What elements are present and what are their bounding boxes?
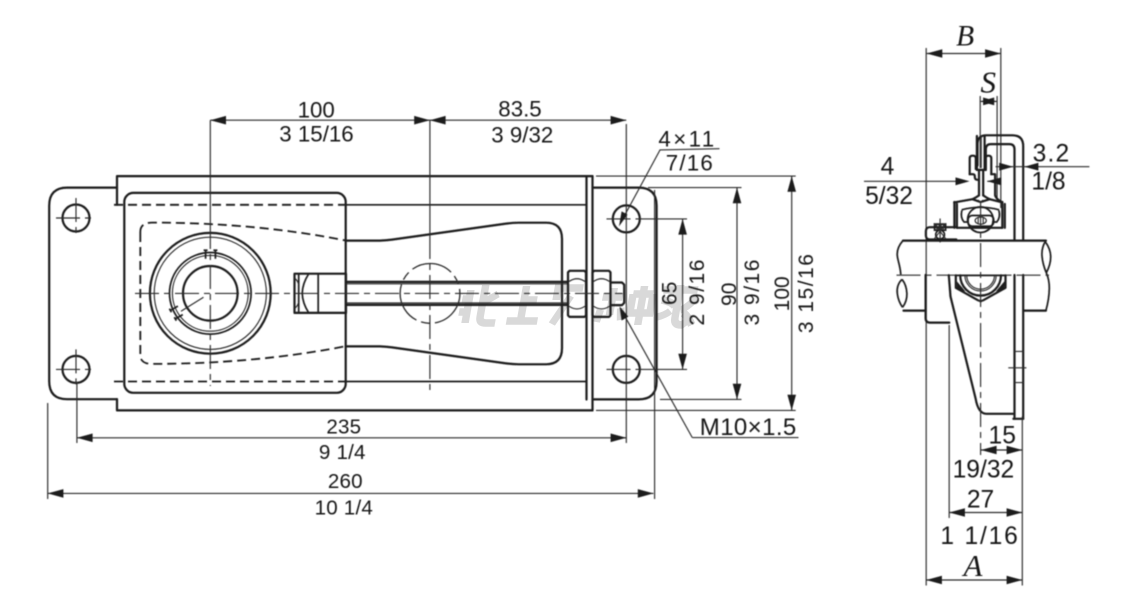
screw head facet lines xyxy=(299,274,319,313)
bore arc outer xyxy=(960,275,1001,295)
shaft bottom edge left xyxy=(904,310,926,312)
frame slot visible contour top xyxy=(346,223,562,365)
frame bottom rail xyxy=(117,399,593,410)
svg-text:B: B xyxy=(956,20,974,52)
dim line 260 xyxy=(48,492,654,494)
ball xyxy=(968,207,994,233)
arrow 3.2 left xyxy=(999,163,1013,171)
adjusting nut left xyxy=(568,271,586,317)
frame bottom rail inner edge hidden xyxy=(114,381,346,383)
arrow 90 top xyxy=(733,188,742,204)
dim line S xyxy=(980,100,997,102)
housing cap right wall xyxy=(1002,202,1005,228)
4x11 leader arrow xyxy=(619,211,628,226)
ext line 27 left xyxy=(948,325,950,518)
svg-text:19/32: 19/32 xyxy=(953,457,1015,484)
arrow 260 right xyxy=(638,489,654,498)
travel-position phantom circle xyxy=(400,264,460,324)
right plate top hole centerline xyxy=(607,218,647,220)
bearing vertical centerline xyxy=(209,120,211,225)
arrow 235 left xyxy=(77,434,93,443)
ext lines S xyxy=(980,96,997,199)
rail right prong xyxy=(986,156,992,175)
svg-text:260: 260 xyxy=(328,470,363,493)
arrow 100R top xyxy=(787,176,796,192)
dim line A xyxy=(926,579,1022,581)
insert bottom line xyxy=(957,227,1002,229)
seal hook right xyxy=(992,210,999,222)
arrow 65 bottom xyxy=(678,354,687,370)
adjusting screw head xyxy=(295,274,347,313)
dim line 27 xyxy=(949,512,1022,514)
svg-text:1 1/16: 1 1/16 xyxy=(940,523,1019,550)
3.2 leader line xyxy=(996,166,1090,168)
bore circle xyxy=(183,266,238,321)
svg-text:235: 235 xyxy=(326,416,361,439)
watermark char 4 xyxy=(596,286,655,325)
ext line 260 left xyxy=(47,403,49,499)
ext line 100R top xyxy=(596,175,796,177)
bearing seat arc xyxy=(962,207,999,210)
ext line 15/27/A right xyxy=(1021,417,1023,586)
housing top right edge xyxy=(981,199,1002,202)
svg-text:3 9/16: 3 9/16 xyxy=(741,258,764,325)
arrow 100R bottom xyxy=(787,395,796,411)
bearing housing boss outer circle xyxy=(150,233,271,354)
inner ring bottom arcs xyxy=(970,226,992,232)
arrow 260 left xyxy=(48,489,64,498)
arrow S left xyxy=(980,98,994,106)
frame wall break ticks xyxy=(1008,351,1026,382)
left mounting plate xyxy=(49,188,117,400)
dim line 15 xyxy=(981,449,1022,451)
ext line 235 left xyxy=(76,382,78,443)
arrow 90 bottom xyxy=(733,384,742,400)
rail web xyxy=(979,170,983,195)
M10 leader arrow xyxy=(620,306,629,320)
svg-text:9 1/4: 9 1/4 xyxy=(319,441,366,464)
housing hidden flange bottom xyxy=(140,233,345,364)
ext line 65 top xyxy=(640,218,687,220)
ext line 100R bottom xyxy=(596,409,796,411)
locking collar xyxy=(926,227,956,239)
svg-text:65: 65 xyxy=(659,282,682,305)
svg-text:3 15/16: 3 15/16 xyxy=(795,253,818,334)
bearing housing boss inner circle xyxy=(154,237,266,349)
inner ring pill xyxy=(968,216,994,227)
right mounting plate xyxy=(593,188,657,400)
watermark xyxy=(457,285,699,325)
frame bottom rail inner edge (visible) xyxy=(346,381,587,383)
bottom boss xyxy=(956,275,1006,301)
frame end plate edge A xyxy=(585,176,587,399)
arrow B right xyxy=(985,49,1001,58)
rail left shoulder xyxy=(970,174,979,180)
left plate bottom hole centerlines xyxy=(56,349,96,389)
screw head corner arcs xyxy=(295,279,299,309)
shaft left break upper xyxy=(897,241,903,275)
housing top center tick xyxy=(978,200,983,203)
arrow 235 right xyxy=(611,434,627,443)
arrow B left xyxy=(927,49,943,58)
lube hole ticks xyxy=(978,217,983,223)
setscrew head knurl lines xyxy=(937,224,944,230)
arrow 27 left xyxy=(949,508,965,517)
housing side plate left xyxy=(926,275,950,323)
housing top left edge xyxy=(954,199,980,202)
arrow 3.2 right xyxy=(1024,163,1038,171)
frame top rail xyxy=(117,176,593,205)
shaft right break lower arc xyxy=(1046,273,1049,311)
svg-text:3 9/32: 3 9/32 xyxy=(491,123,553,148)
right plate bottom bolt hole xyxy=(613,356,640,383)
arrow A left xyxy=(926,576,942,585)
threaded rod outer lines xyxy=(346,282,568,305)
threaded rod core lines xyxy=(346,284,568,303)
arrow dim83.5 left xyxy=(430,116,446,125)
ext line 90 bottom xyxy=(660,398,742,400)
left plate top bolt hole xyxy=(63,205,90,232)
label 4x11 underline xyxy=(660,149,720,150)
setscrew leader xyxy=(181,297,204,311)
svg-text:5/32: 5/32 xyxy=(865,183,913,210)
frame top rail inner edge hidden xyxy=(114,204,346,206)
dim line 235 xyxy=(77,437,626,439)
svg-text:27: 27 xyxy=(967,486,994,513)
rail stem outer lines xyxy=(977,136,985,170)
svg-text:10 1/4: 10 1/4 xyxy=(315,497,373,520)
arrow 15 left xyxy=(981,446,997,455)
svg-text:A: A xyxy=(962,548,984,583)
4x11 leader xyxy=(621,150,661,223)
ext line right holes vertical xyxy=(625,124,627,443)
frame top rail inner edge (visible) xyxy=(346,204,587,206)
arrow 65 top xyxy=(678,219,687,235)
svg-text:7/16: 7/16 xyxy=(666,150,714,175)
rail foot flares xyxy=(973,195,990,199)
arrow dim83.5 right xyxy=(611,116,627,125)
arrow 4 left xyxy=(956,177,970,185)
main horizontal centerline xyxy=(135,292,623,294)
rod end stub xyxy=(611,283,625,306)
arrow 4 right xyxy=(987,177,1001,185)
shaft bottom edge right xyxy=(1024,310,1046,312)
shaft top edge xyxy=(903,240,1046,242)
frame wall bottom cap xyxy=(1013,418,1023,420)
shaft axis line xyxy=(897,274,1050,276)
M10x1.5 leader xyxy=(621,309,693,438)
svg-text:S: S xyxy=(980,64,996,99)
watermark char 1 xyxy=(457,285,502,323)
arrow S right xyxy=(983,98,997,106)
rail stem shelf xyxy=(977,169,985,171)
dim line 90 xyxy=(736,188,738,400)
housing taper edge xyxy=(949,275,1014,414)
seal hook left xyxy=(961,210,968,222)
boss corner fill right xyxy=(996,281,1005,292)
svg-text:100: 100 xyxy=(771,276,794,311)
bore arcs inner xyxy=(965,275,996,291)
watermark char 5 xyxy=(656,285,699,325)
rail stem inner line xyxy=(980,136,982,168)
svg-text:2 9/16: 2 9/16 xyxy=(686,258,709,325)
left plate bottom bolt hole xyxy=(63,356,90,383)
arrow A right xyxy=(1007,576,1023,585)
right nut chamfer arcs xyxy=(594,279,610,309)
ext line 90 top xyxy=(648,187,742,189)
right plate bottom hole centerline xyxy=(607,368,647,370)
take-up housing block xyxy=(124,193,345,393)
bearing inner ring inner circle xyxy=(172,255,248,331)
dim line 65 xyxy=(682,219,684,370)
shaft right break lens xyxy=(1042,241,1051,273)
svg-text:83.5: 83.5 xyxy=(498,96,541,121)
frame channel inner wall xyxy=(986,144,1015,419)
ext line B right xyxy=(1000,48,1002,208)
dim line 100/83.5 top xyxy=(210,119,626,121)
dim line 100R xyxy=(791,176,793,410)
svg-text:15: 15 xyxy=(989,423,1016,450)
rail left prong xyxy=(970,156,976,175)
boss v tick xyxy=(978,299,984,302)
left plate top hole centerlines xyxy=(56,198,96,238)
setscrew cross xyxy=(934,223,946,239)
shaft left break lens xyxy=(897,279,907,307)
boss top edge xyxy=(956,274,1006,276)
setscrew centerline xyxy=(939,219,941,246)
watermark char 2 xyxy=(506,286,543,321)
M10 label underline xyxy=(692,437,798,439)
ext line A/B left xyxy=(925,48,927,586)
main vertical centerline xyxy=(980,203,982,455)
adjusting nut right xyxy=(593,271,611,317)
watermark char 3 xyxy=(552,288,583,324)
travel-position centerline xyxy=(429,120,431,235)
housing cap left wall xyxy=(954,202,957,228)
4 dim leader line xyxy=(864,180,1001,182)
bearing inner ring outer circle xyxy=(170,252,252,334)
arrow dim100 left xyxy=(210,116,226,125)
setscrew head xyxy=(935,224,946,230)
svg-text:4: 4 xyxy=(881,154,895,181)
frame end plate edge B xyxy=(591,176,593,410)
setscrew mark lower-left xyxy=(169,304,183,320)
setscrew mark top xyxy=(204,250,218,259)
boss corner fill left xyxy=(957,281,966,292)
frame channel outer wall xyxy=(978,135,1024,419)
ext line 260 right xyxy=(654,190,656,499)
svg-text:1/8: 1/8 xyxy=(1031,169,1065,196)
svg-text:100: 100 xyxy=(298,97,335,122)
lube hole ellipse xyxy=(975,217,986,224)
ext line 65 bottom xyxy=(640,368,687,370)
svg-text:3 15/16: 3 15/16 xyxy=(279,122,353,147)
arrow dim100 right xyxy=(414,116,430,125)
svg-text:90: 90 xyxy=(718,283,741,306)
arrow 15 right xyxy=(1007,446,1023,455)
dim line B xyxy=(927,53,1001,55)
setscrew ball circle xyxy=(936,230,945,239)
right plate top bolt hole xyxy=(613,205,640,232)
left nut chamfer arcs xyxy=(569,279,585,309)
housing hidden flange top xyxy=(140,223,345,241)
screw head chamfer arcs xyxy=(302,274,308,312)
rail right shoulder xyxy=(991,174,1002,202)
svg-text:4×11: 4×11 xyxy=(658,126,716,151)
arrow 27 right xyxy=(1007,508,1023,517)
